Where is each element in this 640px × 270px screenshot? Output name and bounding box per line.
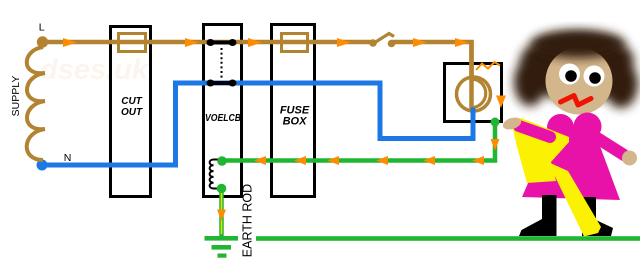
svg-text:EARTH ROD: EARTH ROD [241, 184, 255, 257]
svg-text:VOELCB: VOELCB [205, 113, 241, 124]
svg-text:SUPPLY: SUPPLY [10, 76, 22, 117]
svg-text:L: L [39, 22, 45, 34]
svg-text:OUT: OUT [121, 107, 143, 118]
svg-text:BOX: BOX [283, 116, 308, 128]
svg-text:dses.uk: dses.uk [40, 54, 150, 86]
svg-text:CUT: CUT [121, 96, 142, 107]
svg-text:N: N [64, 152, 72, 164]
